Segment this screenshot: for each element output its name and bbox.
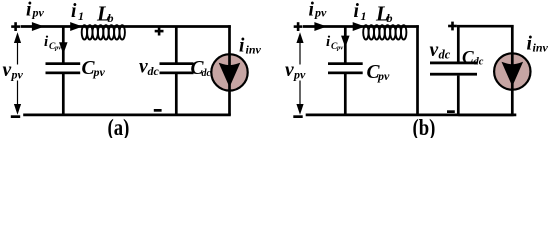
PV minus terminal (a) [11, 115, 20, 118]
node junction C_pv (b) [344, 27, 347, 63]
svg-text:(a): (a) [108, 114, 130, 138]
svg-text:i: i [354, 1, 360, 22]
label C_dc (b) [462, 47, 484, 68]
current arrow i_pv (b) [315, 23, 325, 30]
bottom rail wire dc-side (b) [458, 114, 513, 117]
current arrow i_pv (a) [33, 23, 43, 30]
svg-text:i: i [239, 36, 245, 57]
PV plus terminal (a) [11, 22, 20, 31]
capacitor C_pv plates (a) [46, 62, 81, 74]
svg-text:pv: pv [314, 6, 327, 20]
capacitor C_pv plates (b) [328, 62, 363, 74]
label i_1 (b) [354, 1, 367, 23]
svg-text:dc: dc [202, 68, 212, 79]
current arrow i_1 (a) [71, 23, 81, 30]
svg-text:1: 1 [361, 9, 367, 23]
wire through current source (b) [511, 25, 514, 115]
v_dc minus sign (a) [154, 109, 162, 112]
svg-text:inv: inv [246, 42, 262, 56]
wire C_pv bottom stem (b) [344, 74, 347, 115]
inductor L_b coil (b) [363, 25, 406, 39]
svg-text:1: 1 [78, 9, 84, 23]
wire right vertical of loop (b) [416, 25, 419, 115]
wire C_dc top stem (a) [175, 27, 178, 63]
svg-text:dc: dc [474, 57, 484, 68]
current arrow i_Cpv (b) [342, 36, 349, 46]
label i_pv (a) [26, 0, 45, 21]
top rail wire (b) [303, 25, 419, 28]
label i_pv (b) [309, 0, 328, 21]
label v_pv (a) [1, 60, 28, 81]
current arrow i_1 (b) [353, 23, 363, 30]
svg-text:pv: pv [54, 45, 61, 52]
top rail wire dc-side (b) [457, 25, 514, 28]
PV plus terminal (b) [294, 22, 303, 31]
v_dc plus sign (b) [448, 22, 457, 31]
node junction C_pv (a) [62, 27, 65, 63]
wire C_dc bottom stem (a) [175, 74, 178, 115]
v_pv measurement arrow (a) [17, 40, 19, 107]
label i_1 (a) [71, 1, 84, 23]
label v_dc (a) [139, 57, 160, 78]
current source arrow (b) [503, 63, 522, 85]
svg-text:pv: pv [11, 67, 24, 81]
current arrow i_Cpv (a) [60, 43, 67, 53]
svg-text:C: C [462, 47, 474, 67]
svg-text:i: i [26, 0, 32, 21]
label i_inv (b) [527, 34, 549, 55]
v_dc plus sign (a) [155, 27, 164, 36]
current source i_inv circle (b) [494, 53, 530, 89]
inductor L_b coil (a) [82, 25, 125, 39]
label v_pv (b) [284, 60, 311, 81]
svg-text:(b): (b) [413, 114, 436, 138]
label C_pv (a) [82, 58, 106, 79]
label L_b (a) [96, 2, 114, 26]
svg-text:v: v [285, 60, 294, 81]
caption (b) [413, 114, 436, 140]
svg-text:inv: inv [533, 41, 549, 55]
svg-text:pv: pv [377, 69, 390, 83]
bottom rail wire (a) [23, 114, 231, 117]
svg-text:i: i [309, 0, 315, 21]
label i_Cpv (a) [44, 34, 61, 52]
svg-text:b: b [108, 11, 114, 25]
capacitor C_dc plates (a) [160, 62, 194, 74]
wire C_pv bottom stem (a) [62, 74, 65, 115]
svg-text:b: b [387, 11, 393, 25]
current source i_inv circle (a) [211, 54, 247, 90]
wire through current source (a) [228, 25, 231, 115]
svg-text:v: v [3, 60, 12, 81]
v_pv measurement arrow (b) [299, 40, 301, 107]
svg-text:pv: pv [93, 65, 106, 79]
svg-text:i: i [71, 1, 77, 22]
label i_Cpv (b) [326, 34, 343, 52]
caption (a) [108, 114, 130, 140]
current source arrow (a) [220, 64, 239, 86]
label v_dc (b) [430, 40, 451, 61]
svg-text:dc: dc [148, 64, 160, 78]
label i_inv (a) [239, 36, 262, 57]
label L_b (b) [375, 2, 393, 26]
v_dc minus sign (b) [447, 110, 455, 113]
label C_pv (b) [367, 62, 391, 83]
PV minus terminal (b) [293, 115, 302, 118]
wire C_dc top stem (b) [457, 26, 460, 62]
capacitor C_dc plates (b) [430, 62, 477, 76]
label C_dc (a) [191, 58, 212, 79]
svg-text:pv: pv [32, 6, 45, 20]
svg-text:v: v [430, 40, 439, 61]
svg-text:pv: pv [293, 67, 306, 81]
bottom rail wire (b) [306, 114, 517, 117]
svg-text:dc: dc [439, 47, 451, 61]
wire C_dc bottom stem (b) [457, 76, 460, 116]
svg-text:pv: pv [336, 45, 343, 52]
top rail wire (a) [21, 25, 231, 28]
